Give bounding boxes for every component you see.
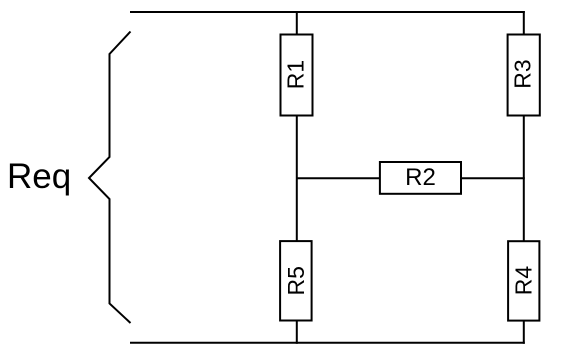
brace for Req: [89, 32, 131, 324]
wire bottom horizontal: [130, 342, 525, 344]
svg-text:R2: R2: [405, 164, 436, 191]
resistor R3: [508, 35, 540, 116]
wire R3 bottom to middle node: [523, 116, 525, 179]
wire top to R1: [296, 11, 298, 36]
wire top to R3: [523, 11, 525, 36]
svg-text:R3: R3: [510, 59, 536, 88]
svg-text:R5: R5: [283, 266, 309, 295]
resistor R5: [280, 241, 312, 320]
resistor R2: [380, 162, 461, 194]
wire top horizontal: [130, 11, 525, 13]
svg-text:R4: R4: [511, 266, 537, 296]
wire middle node to R4 top: [523, 178, 525, 242]
wire R4 bottom to bottom wire: [523, 321, 525, 344]
wire R1 bottom to middle node: [296, 116, 298, 179]
resistor R1: [281, 35, 313, 116]
wire middle right: R2 to R3/R4 node: [460, 177, 525, 179]
svg-text:R1: R1: [283, 60, 309, 89]
resistor R4: [508, 241, 539, 320]
wire middle node to R5 top: [296, 178, 298, 242]
wire middle left: R1/R5 node to R2: [296, 177, 381, 179]
wire R5 bottom to bottom wire: [296, 321, 298, 344]
svg-text:Req: Req: [7, 157, 71, 196]
